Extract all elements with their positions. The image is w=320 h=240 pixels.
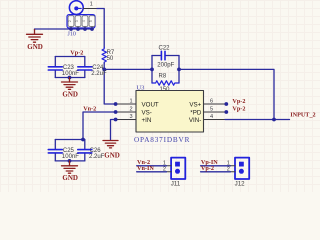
- wire C25/C26 top rail: [55, 139, 85, 141]
- capacitor C24: [84, 57, 86, 67]
- svg-text:J10: J10: [68, 31, 76, 37]
- capacitor C26: [84, 140, 86, 149]
- feedback loop left vertical: [151, 56, 153, 84]
- connector J12: [227, 158, 249, 188]
- capacitor C23: [54, 57, 56, 67]
- svg-text:U3: U3: [136, 84, 145, 91]
- svg-text:GND: GND: [62, 174, 78, 182]
- junction dots J10 shield: [69, 27, 73, 31]
- svg-text:J11: J11: [171, 181, 181, 188]
- svg-text:VOUT: VOUT: [142, 101, 159, 108]
- pin 2 VS-: [116, 111, 136, 113]
- svg-text:VS+: VS+: [189, 101, 201, 108]
- svg-text:Vp-2: Vp-2: [70, 49, 83, 56]
- svg-text:GND: GND: [27, 43, 43, 51]
- wire J10 pin1 to R7: [97, 9, 104, 48]
- svg-text:GND: GND: [62, 91, 78, 99]
- svg-text:INPUT_2: INPUT_2: [290, 111, 315, 118]
- svg-text:2: 2: [129, 107, 132, 113]
- wire C23/C24 top rail: [55, 56, 85, 58]
- svg-text:2: 2: [68, 20, 72, 22]
- pin 5 *PD: [204, 111, 227, 113]
- svg-text:50: 50: [107, 56, 114, 62]
- node VOUT junction: [102, 68, 106, 72]
- pin 1 VOUT: [116, 103, 136, 105]
- svg-text:Vp-2: Vp-2: [201, 165, 214, 172]
- svg-text:*PD: *PD: [190, 109, 202, 116]
- svg-text:Vn-IN: Vn-IN: [137, 165, 154, 172]
- wire J12 pin2: [201, 171, 231, 173]
- svg-text:1: 1: [129, 99, 132, 105]
- pin 6 VS+: [204, 103, 227, 105]
- svg-text:100nF: 100nF: [62, 154, 79, 160]
- wire J11 pin2: [137, 171, 167, 173]
- op-amp U3: [136, 91, 204, 133]
- svg-text:2.2uF: 2.2uF: [91, 71, 107, 77]
- wire node to op-amp pin1: [104, 69, 115, 104]
- resistor R8: [152, 81, 179, 85]
- feedback loop right vertical: [178, 56, 180, 84]
- connector J10: [67, 1, 98, 38]
- pin 3 +IN: [116, 119, 136, 121]
- wire VS- to C25/C26 rail: [83, 112, 116, 140]
- wire +IN to ground: [111, 120, 116, 141]
- capacitor C25: [54, 140, 56, 149]
- wire C25/C26 bottom rail: [55, 160, 85, 162]
- wire VIN- to INPUT_2: [225, 119, 290, 121]
- svg-text:+IN: +IN: [142, 117, 152, 124]
- svg-text:6: 6: [210, 99, 213, 105]
- svg-text:GND: GND: [104, 152, 120, 160]
- svg-text:OPA837IDBVR: OPA837IDBVR: [134, 136, 190, 144]
- svg-text:1: 1: [90, 2, 93, 8]
- ground GND (C23/C24): [62, 78, 78, 90]
- svg-text:R8: R8: [159, 74, 167, 80]
- wire node to feedback loop: [104, 68, 152, 70]
- wire C23/C24 bottom rail: [55, 77, 85, 79]
- ground GND (+IN): [103, 141, 118, 148]
- ground GND (C25/C26): [62, 161, 78, 173]
- svg-text:J12: J12: [235, 181, 246, 188]
- svg-text:VS-: VS-: [142, 109, 152, 116]
- svg-text:5: 5: [89, 20, 93, 22]
- wire J12 pin1: [201, 165, 231, 167]
- wire feedback to VIN- node: [179, 69, 274, 119]
- svg-text:4: 4: [210, 114, 213, 120]
- connector J11: [163, 158, 185, 188]
- svg-text:5: 5: [210, 107, 213, 113]
- ground GND (J10): [27, 30, 43, 43]
- svg-text:C22: C22: [159, 45, 171, 51]
- svg-text:3: 3: [129, 114, 132, 120]
- svg-text:4: 4: [82, 20, 86, 22]
- resistor R7: [102, 48, 106, 64]
- capacitor C22: [152, 55, 161, 57]
- wire J11 pin1: [137, 165, 167, 167]
- wire J10 shield to ground: [35, 29, 93, 30]
- svg-text:3: 3: [75, 20, 79, 22]
- pin 4 VIN-: [204, 119, 226, 121]
- svg-text:VIN-: VIN-: [189, 117, 201, 124]
- wire R7 to node: [103, 63, 105, 69]
- svg-text:2.2uF: 2.2uF: [89, 154, 105, 160]
- svg-text:200pF: 200pF: [157, 63, 174, 69]
- node INPUT_2 junction: [272, 118, 276, 122]
- svg-text:Vp-2: Vp-2: [232, 106, 245, 113]
- svg-text:Vp-2: Vp-2: [232, 98, 245, 105]
